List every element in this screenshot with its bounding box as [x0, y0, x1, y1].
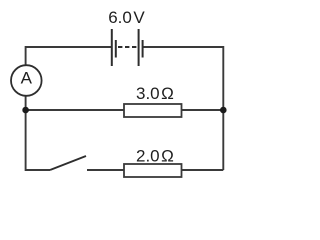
node junction left [22, 107, 29, 114]
resistor R2 2.0 ohm [124, 164, 182, 177]
wire bottom branch right of switch [87, 169, 124, 171]
svg-text:3.0Ω: 3.0Ω [136, 84, 174, 103]
battery B1 6.0 V [112, 29, 143, 66]
wire middle branch left [26, 109, 124, 111]
wire bottom branch right of resistor [182, 169, 224, 171]
switch S1 blade [50, 156, 86, 170]
ammeter A1 [11, 65, 42, 96]
node junction right [220, 107, 227, 114]
svg-text:A: A [21, 69, 33, 88]
wire middle branch right [182, 109, 224, 111]
wire left vertical below ammeter [26, 96, 50, 170]
svg-text:6.0V: 6.0V [108, 8, 145, 27]
resistor R1 3.0 ohm [124, 104, 182, 117]
wire top-right horizontal [143, 47, 224, 170]
svg-text:2.0Ω: 2.0Ω [136, 146, 174, 165]
wire top-left horizontal [26, 47, 112, 65]
